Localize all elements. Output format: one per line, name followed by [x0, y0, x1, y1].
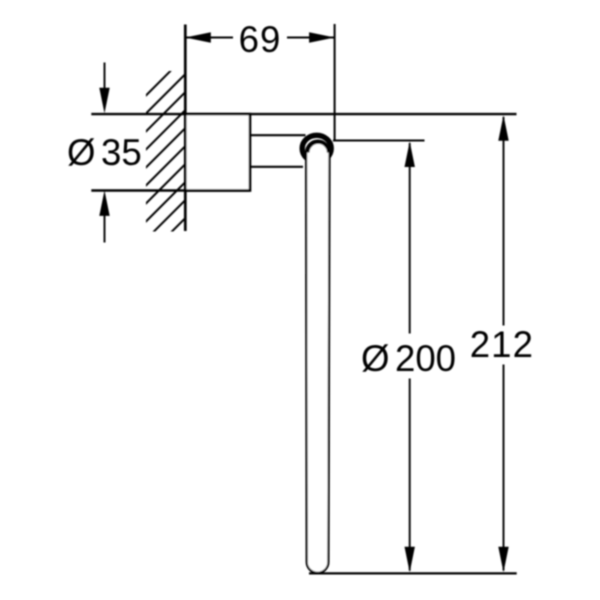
svg-text:Ø: Ø — [67, 132, 95, 173]
svg-text:Ø: Ø — [361, 338, 389, 379]
svg-text:212: 212 — [470, 324, 534, 365]
svg-text:200: 200 — [395, 338, 456, 379]
svg-text:35: 35 — [101, 132, 142, 173]
svg-text:69: 69 — [239, 19, 282, 60]
